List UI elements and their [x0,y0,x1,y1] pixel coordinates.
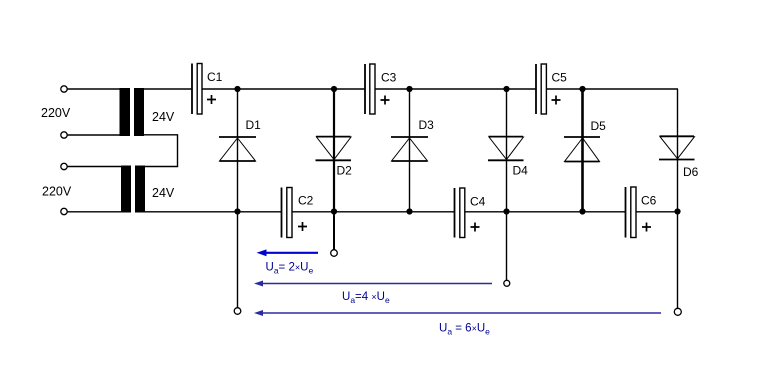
arrow Ua=2xUe [257,249,319,256]
terminal output 2xUe [331,250,338,257]
svg-text:C5: C5 [552,71,568,85]
node bottom 3 [406,208,412,214]
wire output drop 6xUe [677,212,679,309]
wire vertical branch D5 (thick) [581,89,584,212]
node top 2 [331,86,337,92]
node bottom 5 [579,208,585,214]
wire vertical branch D4 [506,89,508,212]
svg-text:C1: C1 [207,70,223,84]
wire primary bottom terminal 4 [67,211,122,213]
capacitor C3 [365,64,397,114]
svg-text:Ua=4 ×Ue: Ua=4 ×Ue [342,291,390,305]
diode D5 [564,119,606,162]
transformer T2 bottom primary winding [121,166,131,213]
terminal input 4 [61,208,67,214]
capacitor C4 [455,188,486,238]
wire primary top terminal 1 [67,88,120,90]
svg-text:24V: 24V [152,186,175,200]
wire bottom rail segment 1 [145,211,281,213]
transformer T1 top secondary winding [134,88,144,136]
wire top rail segment 3 [376,88,536,90]
diode D3 [391,118,434,161]
arrow Ua=4xUe [254,281,492,287]
wire vertical branch D3 [409,89,411,212]
wire bottom rail segment 2 [293,211,455,213]
capacitor C6 [626,187,657,238]
diode D2 [316,137,353,178]
svg-text:D5: D5 [591,119,607,133]
terminal input 2 [61,132,67,138]
svg-text:C2: C2 [298,194,314,208]
wire output drop left common [237,212,239,308]
wire primary top terminal 2 [67,134,120,136]
svg-text:Ua= 2×Ue: Ua= 2×Ue [266,262,314,276]
wire bottom rail segment 4 [637,211,678,213]
svg-text:C4: C4 [470,195,486,209]
wire vertical branch D6 [677,89,679,212]
svg-text:D4: D4 [513,164,529,178]
wire output stub 4xUe [506,212,508,281]
wire primary bottom terminal 3 [67,166,122,168]
node bottom 4 [503,208,509,214]
svg-text:D2: D2 [337,164,353,178]
terminal output 4xUe [504,280,510,286]
svg-text:24V: 24V [152,110,175,124]
node top 3 [406,86,412,92]
transformer T2 bottom secondary winding [135,166,145,213]
transformer T1 top primary winding [120,88,131,136]
terminal output common [234,308,241,315]
terminal input 3 [61,163,67,169]
capacitor C5 [536,64,567,114]
wire vertical branch D2 (thick) [333,89,335,212]
node bottom 2 [331,208,337,214]
svg-text:D3: D3 [419,118,435,132]
wire secondary interconnect [144,135,178,167]
wire output stub 2xUe [333,212,335,250]
node top 4 [503,86,509,92]
diode D4 [488,137,528,178]
capacitor C2 [282,188,314,238]
svg-text:D6: D6 [683,165,699,179]
svg-text:C6: C6 [641,194,657,208]
wire top rail segment 1 [144,88,192,90]
node top 1 [234,86,240,92]
capacitor C1 [192,64,223,115]
diode D6 [659,136,699,179]
wire vertical branch D1 [237,89,239,212]
diode D1 [219,118,261,161]
svg-text:220V: 220V [41,106,71,120]
terminal input 1 [61,86,67,92]
node bottom 1 [234,208,240,214]
node bottom 6 [674,208,680,214]
wire top rail segment 2 [202,88,365,90]
wire bottom rail segment 3 [465,211,625,213]
svg-text:Ua = 6×Ue: Ua = 6×Ue [439,323,490,337]
svg-text:220V: 220V [42,185,72,199]
node top 5 [579,86,585,92]
svg-text:C3: C3 [381,71,397,85]
wire top rail segment 4 [547,88,679,90]
arrow Ua=6xUe [254,310,661,316]
svg-text:D1: D1 [246,118,262,132]
terminal output 6xUe [674,308,681,315]
